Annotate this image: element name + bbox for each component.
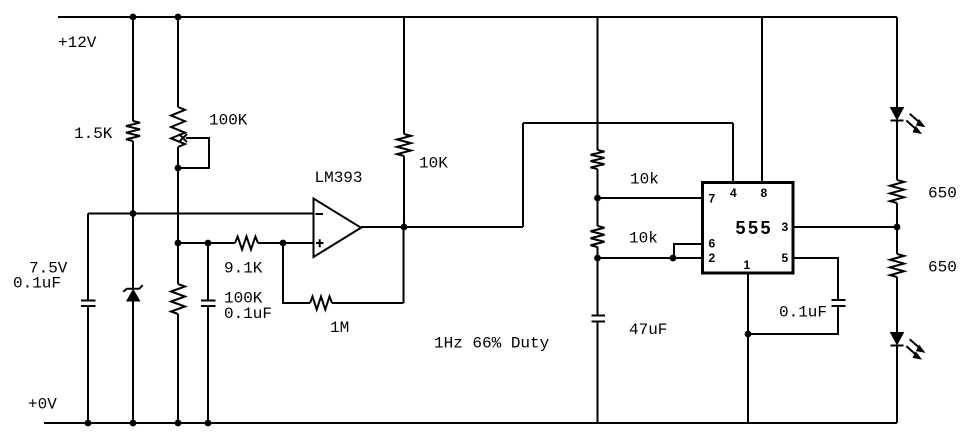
- LED D1 arrows: [906, 114, 924, 134]
- wire non-inverting input right: [258, 242, 313, 244]
- op-amp U1 LM393: [314, 199, 362, 258]
- wire left cap branch: [87, 214, 89, 424]
- svg-text:1.5K: 1.5K: [74, 125, 113, 143]
- svg-text:9.1K: 9.1K: [224, 260, 263, 278]
- svg-text:5: 5: [782, 251, 789, 265]
- node bottom rail / cap: [85, 420, 92, 427]
- resistor 10k lower: [591, 226, 605, 247]
- LED D2 triangle: [891, 333, 904, 345]
- wire pin 2: [598, 257, 703, 259]
- svg-text:0.1uF: 0.1uF: [13, 275, 61, 293]
- node bottom rail / zener: [130, 420, 137, 427]
- svg-text:2: 2: [709, 251, 716, 265]
- wire comparator output: [361, 226, 523, 228]
- wire divider chain middle: [597, 169, 599, 226]
- wire LED chain top: [896, 17, 898, 108]
- wire zener branch upper: [132, 17, 134, 121]
- node divider pin7: [594, 195, 601, 202]
- wire 0V bottom rail: [44, 422, 897, 424]
- wire top link to pin 4: [523, 122, 733, 124]
- wire +12V top rail: [58, 16, 897, 18]
- wire pin 5: [793, 258, 838, 300]
- wire divider chain lower: [597, 247, 599, 423]
- resistor 650 upper: [890, 180, 904, 203]
- capacitor 0.1uF (pin 5): [832, 300, 846, 306]
- svg-text:650: 650: [928, 185, 957, 203]
- IC U2 555 box: [703, 183, 794, 274]
- wire output riser: [522, 123, 524, 227]
- svg-text:0.1uF: 0.1uF: [779, 304, 827, 322]
- wire pot branch lower: [177, 314, 179, 423]
- svg-text:100K: 100K: [209, 112, 248, 130]
- wire pot branch upper: [177, 17, 179, 107]
- zener cathode bar: [123, 285, 142, 292]
- node top rail / 1.5K: [130, 14, 137, 21]
- wire 10K pull-up lower: [403, 156, 405, 227]
- LED D2 arrows: [906, 339, 924, 359]
- LED D1 triangle: [891, 108, 904, 120]
- resistor 1M: [310, 297, 332, 310]
- plus sign: [316, 239, 324, 247]
- svg-text:3: 3: [782, 220, 789, 234]
- wire feedback left drop: [283, 243, 310, 303]
- svg-text:1Hz 66% Duty: 1Hz 66% Duty: [434, 335, 550, 353]
- wire wiper to bottom of pot: [178, 138, 209, 168]
- wire pin 8 riser: [761, 17, 763, 183]
- wire pin 5 cap to ground link: [748, 306, 838, 334]
- svg-text:47uF: 47uF: [629, 321, 667, 339]
- resistor 10k upper: [591, 150, 605, 169]
- wire 10K pull-up upper: [403, 17, 405, 134]
- wire inverting input: [88, 213, 314, 215]
- wire LED chain 2: [896, 203, 898, 254]
- wire pin 6 stub: [674, 244, 703, 258]
- resistor 1.5K: [126, 121, 140, 141]
- node plus input / feedback: [280, 240, 287, 247]
- svg-text:650: 650: [928, 259, 957, 277]
- wire LED chain 1: [896, 121, 898, 181]
- capacitor 0.1uF (input filter): [201, 301, 216, 307]
- wire divider chain top: [597, 17, 599, 150]
- node pin3 / LED chain: [894, 224, 901, 231]
- node bottom rail / pot: [175, 420, 182, 427]
- node inverting input / zener: [130, 210, 137, 217]
- svg-text:4: 4: [730, 186, 737, 200]
- svg-text:10k: 10k: [630, 171, 659, 189]
- wire non-inverting input left: [178, 242, 235, 244]
- wire zener branch middle: [132, 141, 134, 289]
- node pin6/pin2: [670, 255, 677, 262]
- resistor 9.1K: [235, 237, 258, 250]
- svg-text:8: 8: [761, 186, 768, 200]
- wire 0.1uF/100K cap branch: [207, 243, 209, 423]
- svg-text:LM393: LM393: [315, 169, 363, 187]
- wire pin 7: [598, 197, 703, 199]
- zener diode 7.5V triangle: [127, 290, 140, 301]
- wiper arrow of pot: [179, 134, 187, 142]
- node pin1 / cap link: [745, 331, 752, 338]
- svg-text:1: 1: [744, 258, 751, 272]
- node comparator output: [401, 224, 408, 231]
- node top rail / pot: [175, 14, 182, 21]
- wire pin 1 drop: [747, 273, 749, 423]
- node divider pin2: [594, 255, 601, 262]
- LED D2 cathode bar: [891, 345, 904, 347]
- wire LED chain bottom: [896, 346, 898, 424]
- wire feedback right riser: [332, 227, 404, 303]
- wire pot branch middle: [177, 147, 179, 284]
- svg-text:555: 555: [736, 218, 774, 238]
- capacitor 0.1uF (7.5V filter): [81, 301, 96, 307]
- wire zener branch lower: [132, 301, 134, 423]
- node plus input / cap: [205, 240, 212, 247]
- node bottom rail / cap2: [205, 420, 212, 427]
- resistor 10K: [397, 134, 411, 156]
- svg-text:10k: 10k: [629, 230, 658, 248]
- svg-text:+0V: +0V: [28, 396, 57, 414]
- potentiometer 100K: [171, 107, 185, 147]
- node pot wiper bottom: [175, 165, 182, 172]
- minus sign: [316, 213, 324, 215]
- resistor 650 lower: [890, 254, 904, 277]
- LED D1 cathode bar: [891, 120, 904, 122]
- svg-text:+12V: +12V: [58, 34, 97, 52]
- wire LED chain 3: [896, 277, 898, 333]
- wire pin 4 riser: [732, 123, 734, 183]
- svg-text:10K: 10K: [419, 155, 448, 173]
- svg-text:0.1uF: 0.1uF: [224, 305, 272, 323]
- svg-text:7: 7: [709, 192, 716, 206]
- node plus input / pot: [175, 240, 182, 247]
- capacitor 47uF: [592, 316, 606, 322]
- svg-text:1M: 1M: [330, 319, 349, 337]
- resistor 100K lower: [171, 284, 185, 314]
- wire pin 3 output: [793, 226, 897, 228]
- svg-text:6: 6: [709, 237, 716, 251]
